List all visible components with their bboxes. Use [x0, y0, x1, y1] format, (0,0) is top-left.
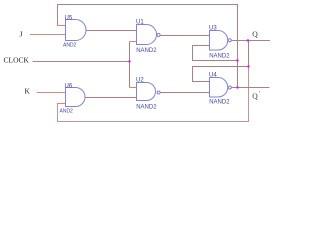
wire Q cross-coupling to U4 upper input [193, 67, 249, 82]
svg-text:J: J [20, 30, 23, 39]
and-gate U5 [66, 20, 87, 41]
nand-gate U2 body [137, 83, 156, 101]
svg-text:Q: Q [252, 91, 258, 100]
wire Q net vertical junction to Q output [248, 41, 250, 67]
wire Q output [232, 40, 270, 42]
wire Q' output [232, 87, 270, 89]
wire CLOCK horizontal [33, 61, 130, 63]
wire Q' cross-coupling to U3 lower input [193, 46, 238, 61]
svg-text:U1: U1 [136, 20, 144, 26]
nand-gate U1 bubble [157, 34, 160, 37]
nand-gate U1 body [137, 25, 157, 45]
wire CLOCK to U1 lower input stub [130, 41, 138, 43]
wire bottom feedback (Q net to U6 lower input) [58, 67, 249, 122]
svg-text:': ' [259, 90, 260, 97]
wire U6 lower input stub [57, 103, 66, 105]
wire U6 output to U2 lower input [86, 97, 138, 99]
svg-text:Q: Q [252, 29, 258, 38]
nand-gate U4 body [210, 78, 228, 98]
wire K input [37, 92, 66, 94]
wire U5 upper input stub [57, 25, 66, 27]
svg-text:AND2: AND2 [63, 42, 77, 48]
svg-text:NAND2: NAND2 [136, 105, 157, 111]
svg-text:AND2: AND2 [60, 108, 74, 114]
nand-gate U2 bubble [157, 91, 160, 94]
svg-text:U6: U6 [65, 84, 73, 90]
svg-text:NAND2: NAND2 [136, 48, 157, 54]
junction Q rail node [247, 65, 249, 67]
wire U5 output to U1 upper input [86, 30, 138, 32]
wire U1 output to U3 upper input [160, 35, 210, 37]
svg-text:K: K [25, 87, 31, 96]
svg-text:NAND2: NAND2 [209, 54, 230, 60]
junction Q output node [247, 39, 249, 41]
wire top feedback (Q' net to U5 upper input) [58, 5, 238, 61]
junction CLOCK node [128, 60, 130, 62]
svg-text:CLOCK: CLOCK [4, 56, 30, 65]
svg-text:U2: U2 [136, 78, 144, 84]
svg-text:U3: U3 [209, 26, 217, 32]
wire U2 output to U4 lower input [160, 92, 210, 94]
wire CLOCK to U2 upper input stub [130, 87, 138, 89]
nand-gate U4 bubble [228, 86, 231, 89]
junction Q' rail node [236, 59, 238, 61]
wire Q' net vertical junction to Q' output [237, 61, 239, 88]
svg-text:NAND2: NAND2 [209, 100, 230, 106]
nand-gate U3 body [210, 31, 228, 51]
svg-text:U5: U5 [65, 16, 73, 22]
wire CLOCK branch vertical [129, 42, 131, 88]
nand-gate U3 bubble [228, 39, 231, 42]
junction Q' output node [236, 86, 238, 88]
wire J input [30, 34, 66, 36]
svg-text:U4: U4 [209, 73, 217, 79]
and-gate U6 [66, 88, 86, 107]
